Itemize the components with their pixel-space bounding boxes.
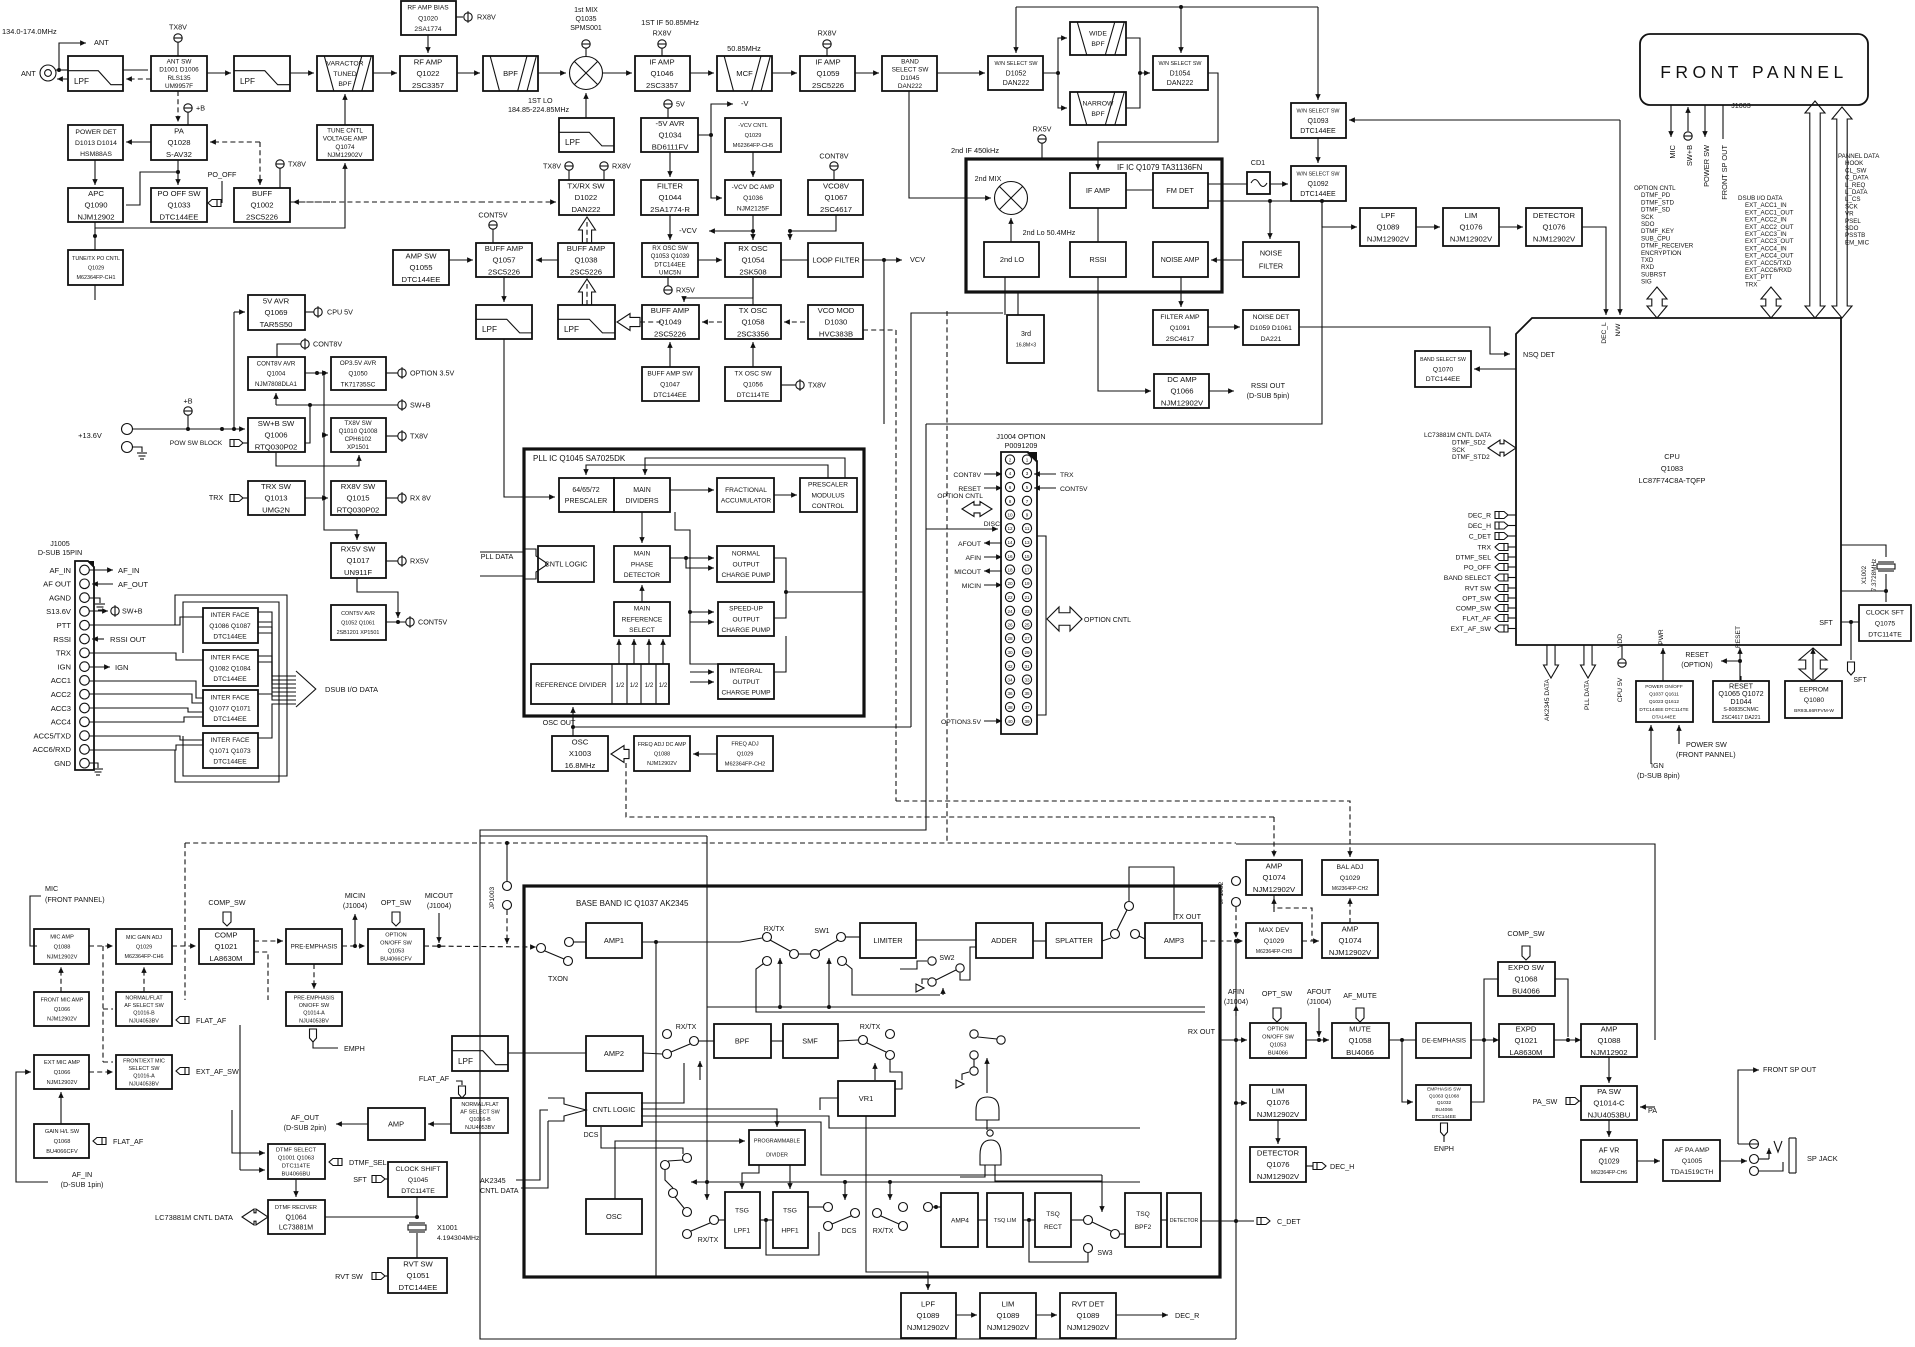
svg-text:SDO: SDO (1845, 225, 1859, 232)
wire disc tap (926, 526, 998, 531)
J1004 pin 11 (1022, 524, 1031, 533)
svg-text:2SK508: 2SK508 (739, 268, 766, 277)
NORMAL OUTPUT CHARGE PUMP (717, 546, 774, 582)
wire sw1-limiter (845, 936, 860, 938)
svg-text:DTMF_SD: DTMF_SD (1641, 207, 1671, 214)
power RX8V if2 (818, 29, 837, 49)
svg-text:+B: +B (184, 397, 193, 406)
svg-text:(J1004): (J1004) (427, 901, 451, 910)
wire progdiv dn1 (739, 1165, 759, 1189)
dbl arrow dsub io (1761, 287, 1781, 318)
wire vcv out (884, 257, 902, 262)
svg-text:CLOCK SHIFT: CLOCK SHIFT (396, 1166, 441, 1173)
svg-text:LIM: LIM (1465, 211, 1478, 220)
wire bsel wn (937, 70, 985, 75)
wire op35 out (386, 372, 398, 374)
INTER FACE Q1082 Q1084 (203, 650, 258, 686)
wire cont8v j4 (984, 471, 1002, 476)
svg-text:HVC383B: HVC383B (819, 330, 853, 339)
node afout (1317, 1038, 1321, 1042)
power RX5V ific (1033, 125, 1052, 144)
PRE-EMPHASIS (286, 929, 342, 964)
wire opt-mute (1306, 1037, 1329, 1042)
wire refdiv osc (570, 707, 575, 736)
wire col diag (978, 1037, 997, 1039)
J1004 pin 24 (1005, 606, 1014, 615)
wire cd1-q1092 (1270, 181, 1288, 186)
svg-text:Q1036: Q1036 (743, 195, 763, 202)
wire narrow-d1054 (1126, 73, 1140, 108)
svg-text:NJM12902: NJM12902 (77, 213, 114, 222)
tag FLAT_AF 3 (459, 1086, 466, 1098)
AMP4 (941, 1193, 978, 1247)
svg-text:MUTE: MUTE (1349, 1024, 1371, 1033)
svg-text:Q1002: Q1002 (250, 201, 273, 210)
switch rxb a (710, 1216, 719, 1225)
EXT MIC AMP Q1066 (34, 1055, 89, 1089)
node sft (1849, 620, 1853, 624)
wire wn d1054 (1178, 7, 1183, 53)
wire sw3 arrow (1099, 1175, 1104, 1212)
wire cp links2 (690, 619, 714, 624)
svg-text:RX OUT: RX OUT (1188, 1027, 1216, 1036)
svg-text:NJM12902V: NJM12902V (1257, 1172, 1300, 1181)
wire sw3-bpf2 (1119, 1233, 1125, 1235)
svg-text:ACC3: ACC3 (51, 704, 71, 713)
wire micin up (352, 914, 357, 946)
wire tsg loop (766, 1220, 819, 1255)
wire tunecntl up (342, 94, 347, 125)
J1005 pin IGN (80, 662, 90, 672)
power RX5V rxosc (664, 286, 695, 295)
GAIN H/L SW Q1068 (34, 1124, 89, 1158)
LPF tx 2 (558, 305, 615, 339)
wire tsg bus (691, 1179, 1140, 1184)
wire pasw stub (1579, 1100, 1581, 1102)
svg-text:TX8V SW: TX8V SW (344, 420, 371, 427)
wire ANT dashed return (57, 76, 68, 81)
J1005 pin TRX (80, 648, 90, 658)
svg-text:ANT SW: ANT SW (167, 58, 193, 65)
svg-text:LPF: LPF (458, 1057, 473, 1066)
svg-text:Q1074: Q1074 (1338, 936, 1362, 945)
svg-text:MICOUT: MICOUT (954, 569, 981, 576)
svg-text:LPF: LPF (482, 325, 497, 334)
svg-text:LC73881M CNTL DATA: LC73881M CNTL DATA (155, 1213, 233, 1222)
svg-text:NJM12902V: NJM12902V (1329, 948, 1372, 957)
svg-text:SCK: SCK (1641, 214, 1655, 221)
DTMF RECEIVER Q1064 (268, 1200, 325, 1234)
svg-text:Q1016-B: Q1016-B (133, 1011, 155, 1017)
tag FLAT_AF 2 (93, 1138, 106, 1145)
wire front sp link (1738, 1143, 1759, 1145)
wire rx5v-mix (585, 48, 587, 56)
svg-text:COMP_SW: COMP_SW (1507, 929, 1544, 938)
svg-text:TX8V: TX8V (543, 162, 561, 171)
tag EXT_AF_SW (176, 1068, 189, 1075)
svg-text:LA8630M: LA8630M (1510, 1048, 1543, 1057)
svg-text:RX/TX: RX/TX (873, 1228, 894, 1235)
IF AMP ic (1070, 173, 1126, 208)
svg-text:AF_OUT: AF_OUT (291, 1113, 320, 1122)
svg-text:Q1053: Q1053 (388, 949, 405, 955)
wire x1002 a (1841, 545, 1886, 557)
svg-text:DISC: DISC (984, 521, 1000, 528)
wire dashv x103 (102, 946, 104, 1062)
wire rx1 up arrow (697, 1061, 702, 1080)
PRESCALER MODULUS CONTROL (800, 478, 857, 512)
node lpf1hpf1 (764, 1218, 768, 1222)
wire q1057 dn (501, 277, 506, 302)
J1004 pin 16 (1005, 551, 1014, 560)
wire mpd-nocp2 (686, 558, 714, 571)
power RX8V bias (464, 11, 496, 23)
J1004 pin 39 (1022, 716, 1031, 725)
CLOCK SFT Q1075 (1859, 605, 1911, 641)
wire IGN out (89, 664, 110, 669)
svg-text:MODULUS: MODULUS (812, 492, 846, 499)
svg-text:38: 38 (1007, 705, 1013, 710)
MAX DEV Q1029 (1246, 923, 1302, 958)
svg-text:39: 39 (1024, 719, 1030, 724)
LPF Q1089 rx (1360, 208, 1416, 246)
node t1 (843, 1180, 847, 1184)
wire swb drop (305, 405, 310, 443)
svg-text:COMP_SW: COMP_SW (1456, 606, 1492, 613)
wire cont8v avr (277, 344, 301, 357)
wire cont5v j4 (1034, 485, 1056, 490)
svg-text:RX/TX: RX/TX (860, 1024, 881, 1031)
svg-text:NJU4053BV: NJU4053BV (465, 1125, 495, 1131)
svg-text:LC87F74C8A-TQFP: LC87F74C8A-TQFP (1639, 476, 1706, 485)
J1004 pin 30 (1005, 647, 1014, 656)
svg-text:DTMF_SD2: DTMF_SD2 (1452, 439, 1486, 446)
svg-text:LPF: LPF (240, 77, 255, 86)
svg-text:VCV: VCV (910, 255, 925, 264)
svg-text:BU4066CFV: BU4066CFV (46, 1149, 78, 1155)
node sw1u1 (778, 1005, 782, 1009)
svg-text:Q1054: Q1054 (741, 256, 765, 265)
node expd in (1482, 1038, 1486, 1042)
LPF tx low (476, 305, 532, 339)
svg-text:OPTION CNTL: OPTION CNTL (937, 493, 983, 500)
tag SFT down (1848, 662, 1855, 675)
svg-text:Q1006: Q1006 (264, 431, 287, 440)
wire sw-amp4 (932, 1206, 941, 1208)
svg-text:5V: 5V (676, 100, 685, 109)
svg-text:BU4066: BU4066 (1346, 1048, 1374, 1057)
pin tag PO_OFF (1495, 564, 1508, 571)
svg-text:ACC6/RXD: ACC6/RXD (33, 745, 72, 754)
svg-text:DSUB I/O DATA: DSUB I/O DATA (1738, 195, 1783, 202)
tag PO_OFF (208, 200, 221, 207)
wire gain-comp (172, 943, 196, 948)
wire bandsel q1070 (1474, 366, 1516, 371)
wire -vcv lbl (709, 228, 753, 233)
wire col wire (973, 1059, 975, 1067)
switch rx2 a (859, 1036, 868, 1045)
wire fp mic (1668, 105, 1673, 137)
svg-text:EXPD: EXPD (1516, 1024, 1537, 1033)
svg-text:RTQ030P02: RTQ030P02 (337, 506, 380, 515)
svg-text:EXT_ACC5/TXD: EXT_ACC5/TXD (1745, 260, 1792, 267)
PO OFF SW Q1033 (151, 188, 207, 222)
wire ACC3 if (89, 708, 203, 712)
svg-text:EXT_PTT: EXT_PTT (1745, 274, 1772, 281)
svg-text:D1054: D1054 (1170, 71, 1191, 78)
wire wn q1093 (1315, 7, 1320, 100)
svg-text:NARROW: NARROW (1083, 101, 1115, 108)
svg-text:27: 27 (1024, 636, 1030, 641)
node -v (709, 133, 713, 137)
wire dcs diag2 (675, 1197, 684, 1208)
J1004 pin 4 (1005, 469, 1014, 478)
svg-text:IF IC Q1079 TA31136FN: IF IC Q1079 TA31136FN (1117, 163, 1202, 172)
svg-text:FLAT_AF: FLAT_AF (113, 1137, 144, 1146)
svg-text:+B: +B (196, 104, 205, 113)
switch sp b (1125, 902, 1134, 911)
wire +B stem (187, 112, 189, 125)
svg-text:32: 32 (1007, 664, 1013, 669)
J1004 pin 40 (1005, 716, 1014, 725)
svg-text:POWER SW: POWER SW (1686, 740, 1727, 749)
svg-text:Q1050: Q1050 (348, 371, 368, 378)
svg-text:Q1091: Q1091 (1170, 325, 1191, 332)
svg-text:D1052: D1052 (1006, 71, 1027, 78)
svg-text:CONT5V: CONT5V (1060, 486, 1088, 493)
svg-text:RVT SW: RVT SW (335, 1272, 363, 1281)
wire comp-preemph sw (254, 952, 268, 1000)
svg-text:S-80835CNMC: S-80835CNMC (1723, 707, 1758, 713)
NOISE DET D1059 D1061 (1243, 310, 1299, 345)
svg-text:Q1089: Q1089 (1376, 223, 1399, 232)
TX OSC SW Q1056 (725, 367, 781, 401)
svg-text:C_DET: C_DET (1469, 534, 1491, 541)
J1005 pin S13.6V (80, 607, 90, 617)
svg-text:BUFF: BUFF (252, 189, 272, 198)
svg-text:Q1089: Q1089 (996, 1311, 1019, 1320)
wire x1002 c (1841, 590, 1886, 592)
svg-text:OPTION: OPTION (1267, 1027, 1288, 1033)
svg-text:TSQ: TSQ (1046, 1211, 1060, 1218)
svg-text:25: 25 (1024, 623, 1030, 628)
svg-text:LPF: LPF (921, 1299, 935, 1308)
svg-text:J1005: J1005 (50, 539, 70, 548)
svg-text:FILTER: FILTER (657, 181, 683, 190)
svg-text:AF VR: AF VR (1599, 1148, 1620, 1155)
svg-text:D1045: D1045 (901, 75, 920, 82)
wire sw2 b out (960, 947, 976, 980)
wire nfsel up (141, 967, 146, 992)
svg-text:Q1071 Q1073: Q1071 Q1073 (209, 748, 251, 755)
svg-text:Q1038: Q1038 (574, 256, 597, 265)
wire swb wire (276, 404, 398, 406)
EMPHASIS SW (1416, 1085, 1471, 1120)
WIDE BPF (1070, 22, 1126, 55)
svg-text:M62364FP-CH3: M62364FP-CH3 (1256, 949, 1292, 955)
wire lpf-lim (1416, 224, 1440, 229)
wire d1054 out (1095, 73, 1218, 170)
wire +b stem2 (187, 415, 189, 429)
wire noisedet-nsq (1299, 327, 1510, 357)
2nd MIX (995, 182, 1028, 215)
svg-text:AF PA AMP: AF PA AMP (1674, 1147, 1709, 1154)
svg-text:RX5V: RX5V (676, 286, 695, 295)
BPF bb (714, 1024, 771, 1058)
wire gnd stub (133, 447, 142, 452)
switch SW1 c (811, 950, 820, 959)
power TX8V out (398, 430, 428, 442)
J1004 pin 37 (1022, 702, 1031, 711)
pin tag DEC_H (1495, 522, 1508, 529)
VCO8V Q1067 (808, 180, 863, 215)
DE-EMPHASIS (1416, 1023, 1471, 1058)
wire jp1003 b (504, 910, 509, 944)
svg-text:BUFF AMP: BUFF AMP (567, 244, 605, 253)
J1005 pin GND (80, 758, 90, 768)
wire fp powersw (1702, 105, 1707, 137)
svg-text:50.85MHz: 50.85MHz (727, 44, 761, 53)
MAIN REFERENCE SELECT (614, 602, 670, 636)
svg-text:FREQ ADJ: FREQ ADJ (731, 742, 759, 748)
svg-text:CPU: CPU (1664, 452, 1680, 461)
svg-text:OPTION: OPTION (385, 933, 406, 939)
power SW+B fp (1684, 132, 1692, 140)
BPF (483, 56, 538, 91)
svg-text:16.8M×3: 16.8M×3 (1016, 342, 1036, 348)
node +b (186, 427, 190, 431)
svg-text:INTER FACE: INTER FACE (211, 655, 250, 662)
INTER FACE Q1086 Q1087 (203, 608, 258, 643)
power RX5V out (398, 555, 429, 567)
svg-text:NORMAL/FLAT: NORMAL/FLAT (461, 1102, 499, 1108)
svg-text:SMF: SMF (802, 1037, 818, 1046)
wire 13.6 to swb (133, 426, 245, 431)
TRX SW Q1013 (248, 481, 305, 515)
svg-text:2SC5226: 2SC5226 (488, 268, 520, 277)
wire op35 vert (323, 373, 325, 498)
svg-text:PO_OFF: PO_OFF (1464, 565, 1491, 572)
wire mrs-mpd (639, 585, 644, 602)
wire sw1 diag1 (770, 940, 790, 951)
node wnsplit (1056, 71, 1060, 75)
wire micamp-gain (89, 943, 113, 948)
svg-text:Q1057: Q1057 (492, 256, 515, 265)
svg-text:Q1063 Q1068: Q1063 Q1068 (1429, 1093, 1459, 1099)
switch dcsb b (851, 1209, 860, 1218)
svg-text:SPEED-UP: SPEED-UP (729, 606, 763, 613)
wire bpf-smf (771, 1040, 783, 1042)
wire filteramp-noisedet (1208, 324, 1240, 329)
node micout (437, 944, 441, 948)
svg-text:OPTION CNTL: OPTION CNTL (1634, 185, 1676, 192)
switch TXON a (537, 944, 546, 953)
svg-text:BUFF AMP SW: BUFF AMP SW (647, 371, 693, 378)
wire osc-dcs (665, 1169, 673, 1188)
wire reset box up (1740, 676, 1742, 681)
switch col c (970, 1051, 978, 1059)
wire jack link (1759, 1158, 1769, 1160)
wire jp1002 dn (1233, 907, 1238, 938)
svg-text:DTC144EE: DTC144EE (213, 676, 247, 683)
svg-text:Q1020: Q1020 (418, 15, 438, 22)
wire reset option (1721, 658, 1740, 663)
wire d1052-wide (1043, 35, 1067, 73)
svg-text:DTMF_SEL: DTMF_SEL (1455, 555, 1491, 562)
svg-text:DEC_R: DEC_R (1468, 513, 1491, 520)
power OPTION3.5V (398, 367, 455, 379)
wire ampu dn (1274, 895, 1312, 941)
svg-text:22: 22 (1007, 595, 1013, 600)
svg-text:AF_IN: AF_IN (118, 566, 140, 575)
J1004 pin 3 (1022, 469, 1031, 478)
switch out d (924, 1203, 933, 1212)
node oscout (571, 725, 575, 729)
svg-text:SFT: SFT (1853, 677, 1867, 684)
tag POW SW BLOCK (230, 440, 243, 447)
svg-text:NJM12902V: NJM12902V (1367, 235, 1410, 244)
IF AMP Q1046 (635, 56, 690, 91)
svg-text:ON/OFF SW: ON/OFF SW (299, 1003, 330, 1009)
wire q1047 up (667, 342, 672, 367)
wire fm-noisefilter (1267, 201, 1272, 239)
J1004 pin 27 (1022, 634, 1031, 643)
dashed bus y843 (185, 842, 1236, 844)
wire sw2 arrow (940, 988, 945, 995)
svg-text:(OPTION): (OPTION) (1681, 662, 1713, 669)
svg-text:DCS: DCS (842, 1228, 857, 1235)
svg-text:CL_SW: CL_SW (1845, 167, 1866, 174)
PA SW Q1014-C (1581, 1086, 1637, 1120)
svg-text:CNTL DATA: CNTL DATA (480, 1186, 519, 1195)
AMP Q1074 u (1246, 860, 1302, 895)
wire nfsel dash (103, 1008, 113, 1010)
J1004 pin 17 (1022, 565, 1031, 574)
svg-text:NJU4053BV: NJU4053BV (129, 1081, 159, 1087)
wire det-cdet (1201, 1220, 1254, 1222)
POWER ON/OFF Q1037 (1636, 681, 1693, 722)
svg-text:NJM12902V: NJM12902V (1533, 235, 1576, 244)
svg-text:BPF: BPF (735, 1037, 750, 1046)
BASE BAND IC outline (524, 886, 1220, 1277)
svg-text:L_CS: L_CS (1845, 196, 1860, 203)
BUFF AMP Q1049 (642, 305, 699, 339)
svg-text:NJU4053BV: NJU4053BV (299, 1018, 329, 1024)
svg-text:BU4066CFV: BU4066CFV (380, 957, 412, 963)
wire amp3-maxdev (1202, 938, 1243, 943)
svg-text:7: 7 (1026, 499, 1029, 504)
svg-text:D1030: D1030 (825, 318, 848, 327)
svg-text:33: 33 (1024, 678, 1030, 683)
svg-text:(FRONT PANNEL): (FRONT PANNEL) (1676, 750, 1736, 759)
wire sw2 in (900, 961, 927, 969)
wire rssi-dcamp (1098, 277, 1151, 394)
svg-text:(J1004): (J1004) (1307, 997, 1331, 1006)
-VCV DC AMP Q1036 (725, 180, 781, 215)
svg-text:4: 4 (1009, 471, 1012, 476)
J1004 pin 36 (1005, 689, 1014, 698)
5V AVR Q1069 (248, 295, 305, 330)
svg-text:(FRONT PANNEL): (FRONT PANNEL) (45, 895, 105, 904)
J1004 connector body (1001, 452, 1037, 734)
hollow arrow lpf-buffamp (579, 279, 596, 305)
J1005 pin AGND (80, 593, 90, 603)
wire amp4-tsqlim (978, 1219, 987, 1221)
APC Q1090 (68, 188, 123, 222)
svg-text:RX5V SW: RX5V SW (341, 544, 376, 553)
svg-text:CNTL LOGIC: CNTL LOGIC (545, 560, 588, 569)
wire rx5v ific (1041, 143, 1043, 159)
